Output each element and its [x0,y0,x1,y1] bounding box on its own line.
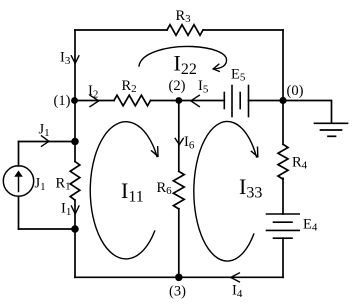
arrow I4 left [231,273,240,282]
svg-text:(3): (3) [169,284,186,300]
wire E5 to node 0 (248.5,100.5)-(283,100.5) [249,100,284,102]
wire right upper (283,30)-(283,100.5) [282,30,284,101]
mesh arrow I11 [152,147,159,157]
junction dot J1 top [71,138,79,146]
wire right mid (283,100.5)-(283,144.3) [282,101,284,145]
wire J1 branch left lower (18.5,196.2)-(18.5,229) [18,196,20,229]
wire J1 branch bottom (18.5,229)-(75,229) [19,228,76,230]
current source J1 arrow [18,176,20,192]
battery E5 plates [223,93,225,109]
mesh current I11 arc [90,122,157,259]
wire mid horizontal left (75,100.5)-(114,100.5) [75,100,114,102]
wire J1 branch left upper (18.5,141.5)-(18.5,166) [18,142,20,167]
wire top left (75,30)-(167,30) [75,29,167,31]
junction dot J1 bottom [71,225,79,233]
mesh current I33 arc [194,121,257,261]
mesh current I22 arc [139,46,227,68]
arrow I3 down [71,56,79,64]
arrow I2 right [90,95,99,106]
svg-text:(2): (2) [169,78,186,94]
current source J1 circle [3,166,33,196]
wire mid vertical upper (178.8,100.5)-(178.8,171.3) [178,101,180,172]
resistor R2 [114,95,151,106]
battery E4 plates [267,213,300,215]
wire bottom (75,277.3)-(283,277.3) [75,276,283,278]
mesh arrow I33 [251,147,257,157]
resistor R1 [70,162,80,201]
wire left vertical (75,30)-(75,161.5) [74,30,76,162]
arrow I6 down [175,138,183,144]
resistor R6 [173,171,184,209]
arrow J1 right [42,136,49,147]
resistor R3 [167,25,203,36]
node 1 junction dot [71,97,78,104]
wire top right (203,30)-(283,30) [203,29,283,31]
svg-text:(1): (1) [54,93,71,109]
wire J1 branch top (18.5,141.5)-(75,141.5) [19,141,76,143]
wire left lower (75,200)-(75,277.3) [74,200,76,277]
node 2 junction dot [175,97,182,104]
wire ground stub (283,100.5)-(331.5,100.5)-(331.5,122.5) [283,101,332,123]
wire mid horizontal right (150.5,100.5)-(224.3,100.5) [151,100,225,102]
mesh arrow I22 [213,64,219,71]
wire mid vertical lower (178.8,208.7)-(178.8,277.3) [178,209,180,278]
arrow I5 left [191,95,200,106]
wire E4 to bottom (283,238.2)-(283,277.3) [282,238,284,277]
ground symbol [315,122,348,124]
wire R4 to E4 (283,178.3)-(283,214) [282,178,284,214]
node 3 junction dot [175,274,183,282]
node 0 junction dot [279,97,286,104]
svg-text:(0): (0) [287,83,304,99]
arrow I1 down [71,206,79,214]
resistor R4 [278,144,288,179]
